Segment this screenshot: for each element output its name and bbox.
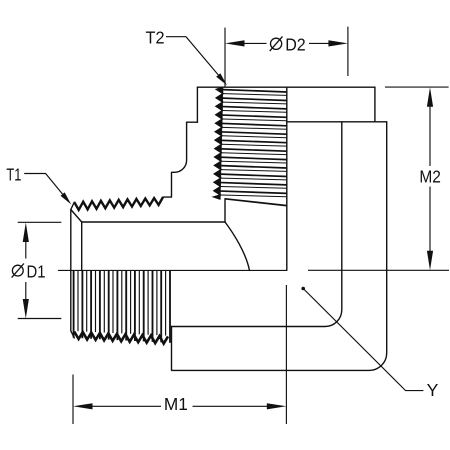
svg-text:M1: M1	[164, 394, 188, 414]
svg-text:T1: T1	[6, 165, 21, 185]
svg-text:Y: Y	[427, 380, 439, 400]
svg-text:D1: D1	[27, 261, 46, 281]
svg-text:T2: T2	[146, 27, 165, 47]
svg-text:M2: M2	[419, 167, 441, 187]
svg-text:D2: D2	[285, 35, 306, 55]
